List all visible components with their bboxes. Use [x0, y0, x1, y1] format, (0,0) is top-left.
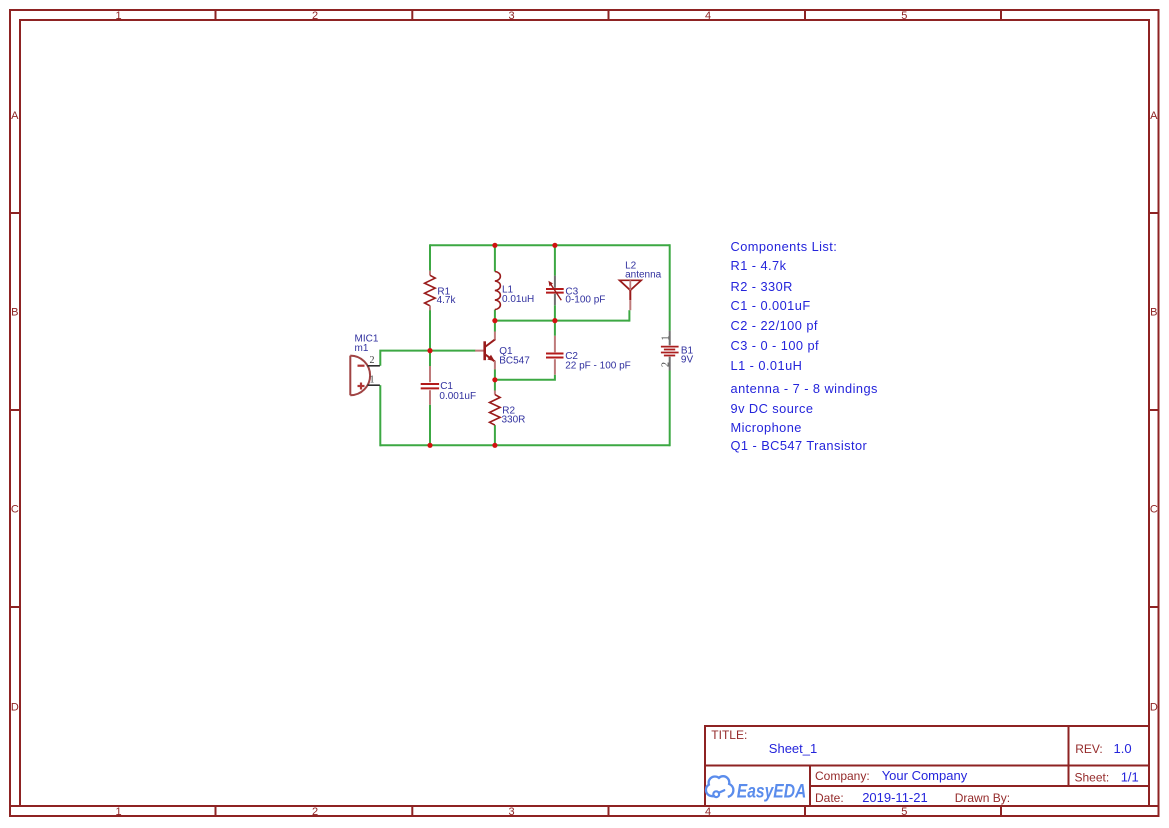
junction node top-L1 [492, 243, 497, 248]
wire R2 bottom to bottom rail [494, 425, 496, 445]
svg-text:Sheet:: Sheet: [1075, 771, 1110, 785]
svg-text:2: 2 [661, 362, 672, 367]
wire bottom rail [380, 444, 669, 446]
resistor R1 [425, 271, 457, 311]
svg-text:4: 4 [705, 806, 711, 818]
svg-text:5: 5 [901, 806, 907, 818]
svg-text:REV:: REV: [1075, 742, 1103, 756]
wire MIC1 pin2 riser and base rail [380, 351, 475, 366]
svg-text:BC547: BC547 [499, 355, 530, 366]
svg-text:antenna - 7 - 8 windings: antenna - 7 - 8 windings [731, 381, 878, 396]
svg-text:1: 1 [661, 336, 672, 341]
transistor Q1 [475, 332, 530, 370]
svg-text:EasyEDA: EasyEDA [737, 782, 807, 803]
svg-text:4.7k: 4.7k [437, 295, 457, 306]
svg-text:3: 3 [508, 10, 514, 22]
capacitor C1 [421, 366, 476, 405]
svg-text:Drawn By:: Drawn By: [955, 791, 1010, 805]
svg-text:9V: 9V [681, 355, 694, 366]
wire C1 bottom to bottom rail [429, 405, 431, 446]
junction node base-C1 [427, 348, 432, 353]
svg-text:Microphone: Microphone [731, 420, 802, 435]
wire R2 top stub [494, 380, 496, 391]
svg-text:1.0: 1.0 [1114, 741, 1132, 756]
svg-text:antenna: antenna [625, 270, 662, 281]
battery B1 [661, 331, 694, 371]
svg-text:0-100 pF: 0-100 pF [565, 295, 605, 306]
svg-text:A: A [11, 110, 19, 122]
column numbers bottom [115, 806, 907, 818]
microphone MIC1 [350, 334, 380, 396]
svg-text:Sheet_1: Sheet_1 [769, 741, 817, 756]
svg-text:5: 5 [901, 10, 907, 22]
capacitor C2 [546, 336, 631, 375]
svg-text:Q1 - BC547 Transistor: Q1 - BC547 Transistor [731, 438, 868, 453]
svg-text:0.001uF: 0.001uF [439, 391, 476, 402]
svg-text:1: 1 [370, 375, 375, 386]
title block frame [705, 726, 1149, 806]
resistor R2 [490, 391, 526, 426]
svg-text:330R: 330R [502, 415, 526, 426]
svg-text:L1 - 0.01uH: L1 - 0.01uH [731, 358, 803, 373]
svg-text:2: 2 [370, 355, 375, 366]
wire Q1 emitter to junction [494, 370, 496, 381]
column tick marks bottom [216, 806, 1002, 816]
svg-text:C: C [1150, 503, 1158, 515]
svg-text:C3 - 0 - 100 pf: C3 - 0 - 100 pf [731, 338, 820, 353]
svg-text:Date:: Date: [815, 791, 844, 805]
svg-text:9v DC source: 9v DC source [731, 401, 814, 416]
junction node bottom-R2 [492, 443, 497, 448]
wire C2 top stub [554, 321, 556, 336]
wire mid rail to antenna [495, 320, 630, 322]
svg-text:B: B [1150, 306, 1157, 318]
svg-text:1/1: 1/1 [1121, 770, 1139, 785]
svg-text:2: 2 [312, 806, 318, 818]
junction node emitter [492, 377, 497, 382]
variable capacitor C3 [546, 276, 605, 306]
svg-text:Components List:: Components List: [731, 239, 838, 254]
svg-text:R1 - 4.7k: R1 - 4.7k [731, 258, 787, 273]
svg-text:2019-11-21: 2019-11-21 [862, 790, 928, 805]
wire battery bottom drop [669, 371, 671, 447]
inductor L1 [495, 272, 534, 310]
wire antenna drop [628, 310, 630, 321]
wire R1 bottom to C1 junction [429, 306, 431, 366]
svg-text:R2 - 330R: R2 - 330R [731, 279, 793, 294]
junction node top-C3 [552, 243, 557, 248]
svg-text:C1 - 0.001uF: C1 - 0.001uF [731, 298, 811, 313]
wire L1 branch top [494, 244, 496, 271]
svg-text:4: 4 [705, 10, 711, 22]
wire MIC1 pin1 drop [379, 385, 381, 446]
wire C3 branch top [554, 244, 556, 275]
junction node mid-C3 [552, 318, 557, 323]
svg-text:3: 3 [508, 806, 514, 818]
antenna L2 [620, 261, 662, 311]
EasyEDA logo [706, 776, 806, 802]
wire C2 bottom corner to emitter rail [495, 375, 555, 380]
svg-text:22 pF - 100 pF: 22 pF - 100 pF [565, 360, 631, 371]
svg-text:D: D [1150, 701, 1158, 713]
svg-text:A: A [1150, 110, 1158, 122]
svg-text:0.01uH: 0.01uH [502, 294, 534, 305]
column numbers top [115, 10, 907, 22]
wire top rail left drop to R1 [429, 244, 431, 270]
svg-text:1: 1 [115, 806, 121, 818]
junction node bottom-C1 [427, 443, 432, 448]
components list text [731, 239, 878, 453]
svg-text:D: D [11, 701, 19, 713]
junction node mid-L1 [492, 318, 497, 323]
svg-text:C: C [11, 503, 19, 515]
svg-text:B: B [11, 306, 18, 318]
svg-text:1: 1 [115, 10, 121, 22]
wire top rail [430, 244, 670, 246]
svg-text:2: 2 [312, 10, 318, 22]
svg-text:Your Company: Your Company [882, 768, 968, 783]
wire battery top drop [669, 244, 671, 330]
row letters right [1150, 110, 1158, 713]
wire C3 bottom to mid junction [554, 305, 556, 320]
svg-text:m1: m1 [355, 343, 369, 354]
row letters left [11, 110, 19, 713]
wire Q1 collector stub [494, 321, 496, 332]
column tick marks top [216, 10, 1002, 20]
row tick marks left [10, 213, 20, 607]
wire L1 bottom to mid junction [494, 310, 496, 321]
row tick marks right [1149, 213, 1159, 607]
svg-text:TITLE:: TITLE: [711, 728, 747, 742]
svg-text:C2 - 22/100 pf: C2 - 22/100 pf [731, 318, 818, 333]
svg-text:Company:: Company: [815, 769, 870, 783]
